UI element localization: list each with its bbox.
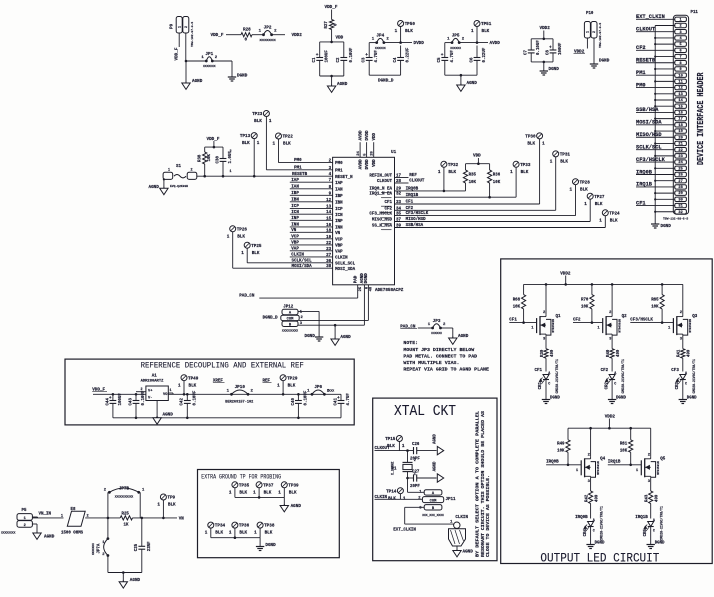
transistor Q5	[636, 453, 666, 484]
testpoint TP23	[252, 111, 272, 170]
svg-text:1: 1	[587, 31, 591, 33]
net VDD2 (led top rail)	[560, 271, 571, 284]
capacitor C2	[337, 47, 354, 62]
wire net RESETB to P11 pin 8	[636, 58, 675, 64]
net DGND_D	[378, 79, 394, 84]
resistor R36	[488, 170, 501, 197]
testpoint TP37	[253, 482, 274, 498]
svg-text:XXXXXXX: XXXXXXX	[92, 543, 95, 555]
svg-text:INN: INN	[291, 224, 299, 228]
capacitor C4	[394, 47, 411, 62]
wire PAD_CN to JP3	[418, 327, 433, 329]
wire source Q4 to R42	[590, 478, 592, 491]
jumper JP1	[201, 52, 217, 68]
ground AGND (C5C6)	[457, 81, 478, 91]
testpoint TP39	[278, 482, 299, 498]
svg-text:CLKIN: CLKIN	[335, 257, 348, 261]
svg-text:0.22UF: 0.22UF	[483, 47, 487, 62]
wire net PM1 to P11 pin 10	[636, 70, 675, 76]
svg-text:VDD: VDD	[373, 132, 377, 140]
svg-text:ICP: ICP	[335, 208, 343, 212]
resistor R42	[585, 491, 599, 519]
svg-text:R28: R28	[243, 28, 251, 33]
svg-text:1: 1	[178, 383, 181, 388]
wire RESETB row	[197, 173, 333, 178]
LED CR4	[584, 506, 604, 541]
svg-text:10K: 10K	[469, 181, 477, 185]
svg-text:2: 2	[185, 26, 189, 28]
svg-text:PAD: PAD	[355, 275, 359, 283]
svg-text:R43: R43	[646, 494, 650, 502]
svg-text:VDD: VDD	[473, 153, 481, 158]
svg-text:CF3/HSCLK: CF3/HSCLK	[630, 317, 653, 322]
svg-text:CLKOUT: CLKOUT	[377, 180, 393, 184]
svg-text:CF1: CF1	[509, 318, 517, 322]
svg-text:TP14: TP14	[386, 489, 397, 494]
svg-text:SSB/HSA: SSB/HSA	[406, 223, 424, 228]
svg-text:26: 26	[678, 174, 682, 178]
connector P9	[170, 17, 194, 48]
svg-text:1: 1	[254, 531, 257, 536]
wire V1 to JP11 A	[408, 478, 425, 492]
testpoint TP49	[178, 375, 199, 395]
svg-text:IBP: IBP	[291, 192, 299, 196]
svg-text:VDD_F: VDD_F	[207, 137, 220, 142]
capacitor C7	[525, 40, 542, 55]
svg-text:23: 23	[678, 155, 682, 159]
svg-text:R49: R49	[557, 442, 565, 446]
svg-text:40: 40	[370, 286, 374, 291]
svg-text:CMD28-21VGC/TR8/T1: CMD28-21VGC/TR8/T1	[555, 359, 559, 394]
svg-text:1: 1	[61, 514, 63, 518]
svg-text:CLKOUT: CLKOUT	[409, 180, 425, 184]
svg-text:MISO_HSD: MISO_HSD	[372, 219, 393, 223]
ground DGND (P11)	[651, 224, 671, 229]
svg-text:CR4: CR4	[584, 528, 588, 536]
wire IRQ0B	[395, 188, 466, 193]
svg-text:TP27: TP27	[594, 195, 605, 200]
wire drain Q1	[545, 284, 547, 314]
LED CR1	[539, 359, 559, 394]
transistor Q2	[597, 311, 627, 342]
wire gate Q2	[573, 321, 603, 324]
svg-text:INP: INP	[291, 217, 299, 221]
testpoint TP29	[277, 375, 298, 395]
svg-text:XXXXXX: XXXXXX	[375, 47, 386, 50]
net VDD2 (C7C8)	[540, 26, 551, 31]
wire P9 pin1 to VDD_F	[175, 33, 180, 61]
text U1 right pin names	[369, 175, 401, 229]
net CLKOUT (xtal)	[375, 447, 391, 451]
wire CR2 to DGND	[611, 384, 613, 400]
svg-text:BLK: BLK	[482, 29, 490, 34]
wire extra agnd rail	[235, 496, 284, 505]
svg-text:IBN: IBN	[335, 201, 343, 205]
svg-text:C4: C4	[394, 57, 398, 62]
wire E8 to R25	[85, 517, 120, 520]
wire source Q2 to R40	[611, 336, 613, 349]
svg-text:TP35: TP35	[239, 483, 250, 488]
svg-text:R25: R25	[122, 512, 130, 516]
capacitor C30	[216, 150, 233, 176]
svg-text:NOTE:: NOTE:	[403, 340, 418, 346]
wire ref bottom rail	[113, 403, 341, 419]
svg-text:ADE7858ACPZ: ADE7858ACPZ	[375, 288, 404, 293]
wire C5C6 bottom rail	[445, 46, 477, 86]
svg-text:V+: V+	[148, 390, 153, 394]
svg-text:CF3: CF3	[671, 369, 679, 373]
wire drain Q3	[682, 284, 684, 314]
jumper JP7A vertical	[92, 518, 109, 557]
svg-text:TP30: TP30	[525, 135, 536, 140]
svg-text:20PF: 20PF	[410, 485, 420, 489]
svg-text:DGND: DGND	[265, 543, 276, 548]
capacitor C26	[410, 443, 437, 462]
svg-text:CMD28-21VGC/TR8/T1: CMD28-21VGC/TR8/T1	[600, 506, 604, 541]
jumper JP10	[227, 385, 254, 396]
svg-text:PM0: PM0	[335, 162, 343, 166]
svg-text:X_20MHZ: X_20MHZ	[391, 462, 395, 475]
svg-text:AVDD: AVDD	[490, 41, 501, 46]
svg-text:REFIN_OUT: REFIN_OUT	[369, 175, 392, 179]
testpoint TP26	[227, 226, 248, 268]
net CF3 (led)	[671, 369, 679, 373]
jumper JP3	[428, 319, 446, 335]
svg-text:IBP: IBP	[335, 195, 343, 199]
svg-text:1: 1	[257, 141, 260, 146]
ground DGND (JP1)	[228, 74, 248, 82]
svg-text:C6: C6	[470, 57, 474, 62]
svg-text:22: 22	[678, 149, 682, 153]
svg-text:26: 26	[371, 151, 375, 156]
testpoint TP27	[584, 193, 605, 221]
resistor R70	[581, 284, 594, 322]
svg-text:CF2: CF2	[573, 318, 581, 322]
net EXT_CLKIN	[393, 528, 416, 532]
svg-text:C: C	[653, 530, 655, 534]
svg-text:BLK: BLK	[215, 531, 223, 536]
svg-text:EXT_CLKIN: EXT_CLKIN	[393, 528, 416, 532]
svg-text:TP25: TP25	[251, 244, 262, 249]
wire source Q3 to R41	[682, 336, 684, 349]
svg-text:499: 499	[617, 349, 621, 357]
wire CR1 to DGND	[545, 384, 547, 400]
net CF1 (led)	[535, 369, 543, 373]
svg-text:R85: R85	[651, 299, 659, 303]
svg-text:Q2: Q2	[622, 315, 628, 319]
text box title REF	[141, 360, 304, 370]
svg-text:1: 1	[510, 170, 513, 175]
svg-text:C26: C26	[412, 443, 420, 447]
testpoint TP51	[471, 21, 492, 43]
svg-text:TP31: TP31	[560, 153, 571, 158]
svg-text:TSW-132-08-G-S: TSW-132-08-G-S	[663, 218, 688, 221]
svg-text:10K: 10K	[651, 306, 659, 310]
wire VDD pullup rail	[466, 158, 490, 170]
svg-text:TP32: TP32	[448, 163, 459, 168]
svg-text:499: 499	[688, 349, 692, 357]
svg-text:BLK: BLK	[580, 187, 588, 192]
svg-text:JP6: JP6	[314, 385, 322, 390]
wire JP3 to AGND	[441, 328, 453, 338]
svg-text:CF1: CF1	[636, 200, 646, 206]
svg-text:DGND: DGND	[687, 397, 697, 401]
ground DGND (C7C8)	[540, 67, 560, 75]
net IRQ1B (led)	[635, 516, 648, 520]
svg-text:CF3_HSCLK: CF3_HSCLK	[369, 213, 392, 217]
wire VDD2 stem	[543, 31, 546, 41]
svg-text:1: 1	[230, 170, 232, 174]
capacitor C40	[292, 390, 309, 405]
svg-text:BLK: BLK	[168, 503, 176, 508]
svg-text:AGND: AGND	[291, 504, 302, 509]
wire R25 right	[133, 517, 178, 520]
testpoint TP34	[205, 522, 226, 538]
wire net CF1 to P11 pin 31	[636, 200, 675, 206]
svg-text:A1: A1	[152, 374, 158, 378]
wire PM0 row	[279, 159, 333, 163]
wire JP4 right	[384, 41, 412, 44]
ground DGND (CR1)	[542, 397, 561, 404]
svg-text:S1: S1	[176, 165, 181, 169]
svg-text:XXXXXXXXX: XXXXXXXXX	[282, 330, 298, 333]
svg-text:VDD2: VDD2	[605, 414, 616, 419]
wire P5 pin1 out	[32, 516, 63, 519]
svg-text:IRQ0B: IRQ0B	[575, 516, 588, 520]
ground AGND (extra)	[280, 504, 301, 512]
svg-text:AGND: AGND	[433, 461, 437, 471]
svg-text:DGND: DGND	[549, 67, 560, 72]
svg-text:REFERENCE DECOUPLING AND EXTER: REFERENCE DECOUPLING AND EXTERNAL REF	[141, 360, 304, 370]
svg-text:+: +	[337, 396, 340, 401]
net VDD_F (ref box)	[92, 388, 107, 393]
svg-text:TP34: TP34	[215, 524, 226, 529]
svg-text:Q1: Q1	[556, 315, 562, 319]
wire net PM0 to P11 pin 12	[636, 82, 675, 88]
svg-text:AGND: AGND	[337, 82, 348, 87]
svg-text:SS_N_HSA: SS_N_HSA	[372, 225, 393, 229]
svg-text:29: 29	[678, 192, 682, 196]
wire VN bottom rail	[108, 556, 142, 582]
svg-text:VCP: VCP	[291, 236, 299, 240]
svg-text:PM1: PM1	[636, 70, 646, 76]
svg-text:RESETB: RESETB	[636, 58, 655, 64]
net IRQ0B (gate Q4)	[546, 461, 559, 465]
svg-text:IRQ0B: IRQ0B	[546, 461, 559, 465]
svg-text:BLK: BLK	[237, 234, 245, 239]
svg-text:DVDD: DVDD	[366, 159, 370, 170]
svg-text:AGND: AGND	[458, 334, 469, 339]
svg-text:EXT_CLKIN: EXT_CLKIN	[636, 14, 665, 20]
svg-text:CMD28-21VGC/TR8/T1: CMD28-21VGC/TR8/T1	[621, 359, 625, 394]
svg-text:IAN: IAN	[291, 186, 299, 190]
text P11 part number	[663, 218, 688, 221]
svg-text:XXXXXXXXX: XXXXXXXXX	[259, 39, 275, 42]
svg-text:1: 1	[570, 187, 573, 192]
text U1 bottom pin names	[355, 273, 374, 292]
svg-text:BLK: BLK	[527, 142, 535, 147]
svg-text:XXXXXX: XXXXXX	[431, 332, 442, 335]
svg-text:XTAL CKT: XTAL CKT	[394, 404, 456, 420]
testpoint TP14	[386, 488, 406, 502]
wire CR4 to DGND	[590, 531, 592, 545]
LED CR2	[605, 359, 625, 394]
testpoint TP36	[229, 522, 250, 538]
svg-text:1: 1	[168, 169, 170, 173]
svg-text:0.22UF: 0.22UF	[407, 47, 411, 62]
svg-text:CF2: CF2	[384, 207, 392, 211]
wire JP1 left	[186, 60, 206, 62]
svg-text:10K: 10K	[493, 181, 501, 185]
svg-text:P10: P10	[586, 12, 594, 16]
svg-text:VN_IN: VN_IN	[39, 513, 52, 517]
svg-text:28: 28	[678, 186, 682, 190]
svg-text:TP36: TP36	[239, 524, 250, 529]
net VDD_F (R38)	[207, 137, 220, 142]
svg-text:6: 6	[680, 49, 682, 53]
svg-text:TP23: TP23	[252, 112, 263, 117]
svg-text:DGND: DGND	[655, 542, 665, 546]
svg-text:2: 2	[593, 31, 597, 33]
wire MISO/HSD long	[395, 217, 591, 222]
wire net CF3/HSCLK to P11 pin 24	[636, 157, 675, 163]
testpoint TP30	[525, 133, 545, 204]
svg-text:25: 25	[678, 167, 682, 171]
resistor R81	[620, 428, 633, 465]
svg-text:32: 32	[396, 193, 402, 197]
text xtal note	[476, 410, 491, 557]
svg-text:20: 20	[678, 136, 682, 140]
svg-text:CMD28-21VGC/TR8/T1: CMD28-21VGC/TR8/T1	[692, 359, 696, 394]
svg-text:CF3/HSCLK: CF3/HSCLK	[636, 157, 666, 163]
svg-text:1: 1	[584, 202, 587, 207]
svg-text:BLK: BLK	[265, 531, 273, 536]
svg-text:ADR280ARTZ: ADR280ARTZ	[141, 379, 165, 383]
net DVDD	[414, 41, 425, 46]
resistor R85	[651, 284, 664, 322]
svg-text:COM: COM	[430, 499, 437, 503]
svg-text:5: 5	[680, 43, 682, 47]
svg-text:VDD2: VDD2	[540, 26, 551, 31]
svg-text:AVDD: AVDD	[360, 130, 364, 141]
ground AGND (P5)	[33, 532, 55, 540]
jumper JP2	[259, 26, 278, 42]
svg-text:R27: R27	[325, 21, 329, 29]
svg-text:VCP: VCP	[335, 238, 343, 242]
jumper JP12 3-pin	[263, 305, 304, 332]
svg-text:XXXXXXX: XXXXXXX	[203, 65, 216, 68]
svg-text:R70: R70	[581, 299, 589, 303]
ground AGND (A1)	[153, 413, 173, 425]
wire VDD_F to R28	[226, 34, 241, 36]
svg-text:IRQ1B: IRQ1B	[635, 516, 648, 520]
svg-text:25: 25	[359, 286, 363, 291]
svg-text:CR1: CR1	[539, 381, 543, 389]
svg-text:DGND_D: DGND_D	[378, 79, 394, 84]
svg-text:XXXX: XXXX	[327, 390, 334, 393]
svg-text:R42: R42	[585, 494, 589, 502]
svg-text:1: 1	[157, 503, 160, 508]
svg-text:IBN: IBN	[291, 199, 299, 203]
svg-text:TSW-102-07-G-S: TSW-102-07-G-S	[599, 23, 602, 48]
svg-text:BLK: BLK	[405, 29, 413, 34]
capacitor C41	[334, 393, 351, 406]
svg-text:CF1: CF1	[406, 201, 414, 205]
net PAD_CN (JP3)	[400, 326, 417, 330]
resistor R41	[678, 349, 692, 372]
wire led top rail	[524, 283, 683, 286]
ferrite bead E8	[61, 508, 89, 536]
capacitor C44	[106, 393, 123, 406]
resistor R27	[325, 20, 339, 30]
svg-text:REPEAT VIA GRID TO AGND PLANE: REPEAT VIA GRID TO AGND PLANE	[403, 366, 489, 372]
wire P5 pin2 to AGND	[32, 524, 37, 533]
text XTAL CKT title	[394, 404, 456, 420]
svg-text:IRQ1B: IRQ1B	[608, 461, 621, 465]
svg-text:XXX_XXX_XXXX: XXX_XXX_XXXX	[422, 514, 444, 517]
svg-text:AGND: AGND	[433, 434, 437, 444]
svg-text:TP28: TP28	[580, 180, 591, 185]
ground DGND (JP12)	[305, 334, 324, 341]
svg-text:XXXXXXXX: XXXXXXXX	[1, 532, 16, 535]
svg-text:1: 1	[229, 531, 232, 536]
svg-text:17: 17	[678, 118, 682, 122]
svg-text:JP7A: JP7A	[98, 543, 102, 553]
net VN	[179, 517, 185, 521]
svg-text:0: 0	[245, 38, 248, 43]
svg-text:27: 27	[678, 180, 682, 184]
testpoint TP22	[273, 133, 294, 163]
net VDD_F	[211, 33, 224, 38]
wire CLKIN junction row	[406, 477, 413, 480]
svg-text:10K: 10K	[620, 449, 628, 453]
svg-text:AGND: AGND	[467, 81, 478, 86]
svg-text:ICN: ICN	[291, 211, 299, 215]
svg-text:DGND: DGND	[305, 334, 316, 339]
svg-text:CR5: CR5	[644, 528, 648, 536]
connector P10	[584, 12, 601, 48]
svg-text:REF: REF	[409, 174, 417, 178]
svg-text:C43: C43	[129, 398, 133, 406]
svg-text:CF1: CF1	[535, 369, 543, 373]
wire net SSB/HSA to P11 pin 16	[636, 107, 675, 113]
svg-text:10: 10	[678, 74, 682, 78]
svg-text:1500 OHMS: 1500 OHMS	[61, 532, 84, 536]
crystal V1	[391, 451, 416, 478]
wire SCLK/SCL row	[247, 258, 332, 263]
connector P11 device interface header	[673, 11, 698, 215]
ground DGND (CR3)	[679, 397, 698, 404]
svg-text:+: +	[316, 53, 319, 58]
svg-text:BLK: BLK	[289, 490, 297, 495]
svg-text:TP24: TP24	[609, 211, 620, 216]
text DEVICE INTERFACE HEADER	[696, 72, 706, 165]
svg-text:4.7UF: 4.7UF	[375, 50, 379, 63]
svg-text:1: 1	[269, 119, 272, 124]
wire drain Q4	[590, 428, 592, 457]
svg-text:TP26: TP26	[237, 227, 248, 232]
wire JP11 B to EXT_CLKIN	[405, 507, 454, 524]
wire gate Q1	[509, 321, 536, 324]
capacitor C42	[181, 390, 198, 405]
svg-text:VAP: VAP	[335, 250, 343, 254]
capacitor C25	[135, 518, 152, 573]
wire ref top rail	[93, 393, 341, 401]
jumper JP7B top	[104, 487, 145, 518]
svg-text:TSW-102-07-G-S: TSW-102-07-G-S	[191, 22, 194, 47]
svg-text:BLK: BLK	[521, 170, 529, 175]
wire R38C30 top rail	[205, 141, 223, 159]
